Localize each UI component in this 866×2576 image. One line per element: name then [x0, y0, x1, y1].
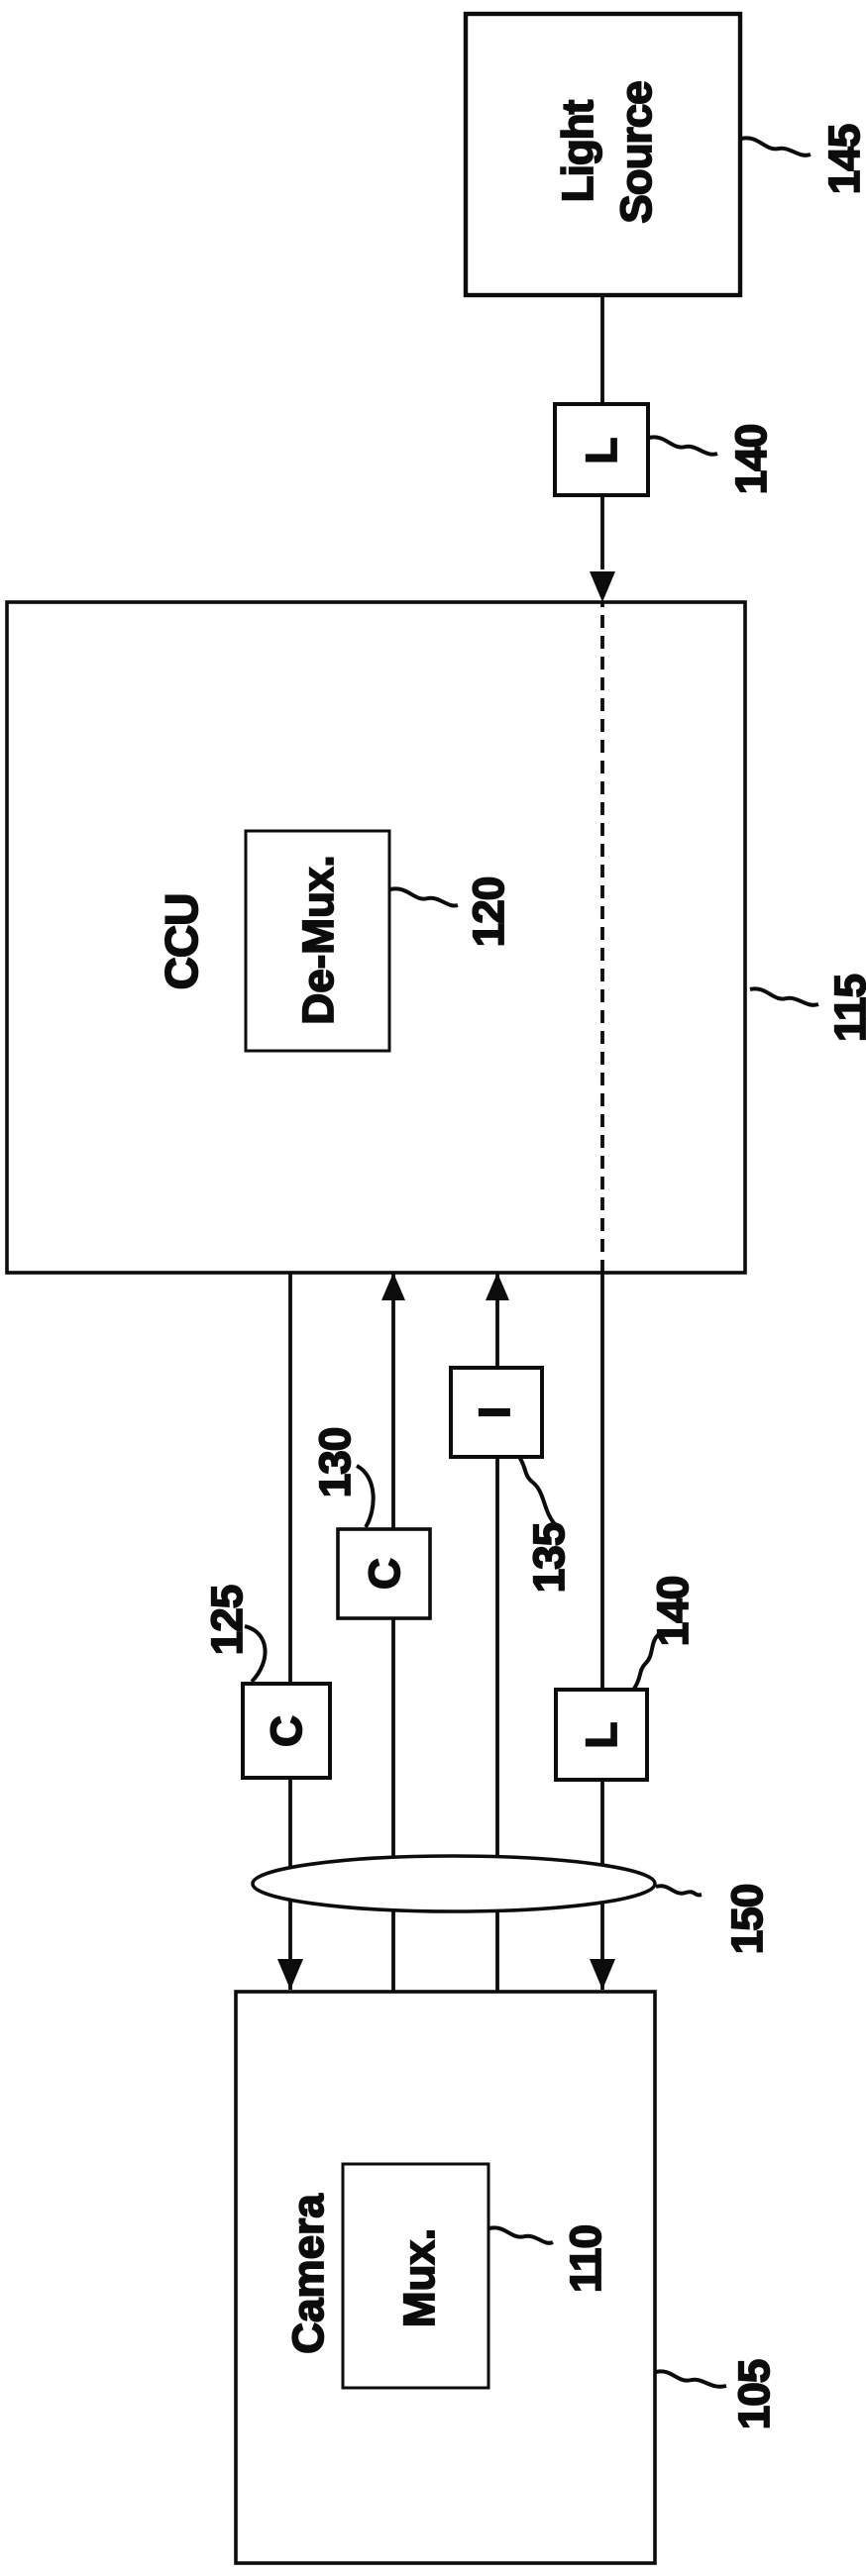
arrowhead into camera line 1: [277, 1959, 303, 1990]
squiggle leader 135: [519, 1457, 555, 1524]
svg-text:120: 120: [465, 877, 513, 947]
wire: L box 140 to Light Source: [600, 293, 604, 404]
svg-text:Mux.: Mux.: [395, 2228, 444, 2327]
ellipse 150 (fiber bundle): [253, 1856, 655, 1911]
wire: camera to CCU line 4 (with L box 140): [600, 1273, 604, 1990]
I box 135: [451, 1368, 542, 1457]
svg-text:L: L: [578, 438, 626, 464]
wire: camera to CCU line 3 (with I box 135): [495, 1273, 499, 1992]
wire: dashed line through CCU: [600, 602, 604, 1273]
squiggle leader 105: [656, 2371, 726, 2386]
arrowhead into camera line 4: [590, 1959, 615, 1990]
squiggle leader 115: [750, 988, 818, 1004]
dashed wire inside CCU redrawn over box: [600, 602, 604, 1273]
svg-text:C: C: [361, 1558, 409, 1590]
squiggle leader 130: [357, 1466, 374, 1527]
squiggle leader 140 top: [649, 437, 717, 454]
svg-text:Camera: Camera: [284, 2194, 333, 2354]
svg-text:145: 145: [820, 124, 866, 194]
arrowhead into CCU from light source: [590, 571, 615, 602]
mux box 110: [343, 2164, 488, 2388]
CCU box 115: [7, 602, 745, 1273]
svg-text:C: C: [263, 1715, 311, 1747]
svg-text:135: 135: [525, 1522, 574, 1593]
squiggle leader 140 bottom: [634, 1635, 658, 1689]
arrowhead into CCU line 3: [486, 1273, 509, 1300]
squiggle leader 120: [390, 888, 458, 905]
svg-text:140: 140: [727, 425, 776, 494]
svg-text:150: 150: [723, 1885, 772, 1954]
C box 130: [338, 1529, 430, 1618]
de-mux box 120: [246, 831, 389, 1051]
squiggle leader 150: [656, 1886, 702, 1895]
L box 140 (bottom): [556, 1690, 647, 1780]
arrowhead into CCU line 2: [381, 1273, 405, 1300]
svg-text:De-Mux.: De-Mux.: [294, 855, 343, 1024]
svg-text:105: 105: [730, 2359, 779, 2429]
light source box 145: [466, 14, 740, 295]
svg-text:L: L: [578, 1722, 626, 1749]
svg-text:115: 115: [826, 974, 866, 1042]
camera box 105: [236, 1992, 655, 2563]
svg-text:140: 140: [649, 1577, 698, 1646]
svg-text:125: 125: [203, 1585, 252, 1655]
svg-text:130: 130: [311, 1428, 360, 1497]
squiggle leader 110: [489, 2227, 553, 2242]
svg-text:CCU: CCU: [156, 894, 207, 990]
wire: CCU to L box 140 (top): [600, 495, 604, 569]
wire: camera to CCU line 2 (with C box 130): [391, 1273, 395, 1992]
L box 140 (top): [555, 404, 648, 495]
svg-text:Light: Light: [554, 99, 602, 202]
squiggle leader 125: [245, 1626, 266, 1682]
svg-text:I: I: [471, 1406, 519, 1418]
C box 125: [243, 1684, 330, 1778]
wire: camera to CCU line 1 (top, with C box 125): [288, 1273, 292, 1990]
squiggle leader 145: [741, 138, 811, 155]
svg-text:Source: Source: [612, 81, 661, 223]
svg-text:110: 110: [562, 2225, 610, 2293]
